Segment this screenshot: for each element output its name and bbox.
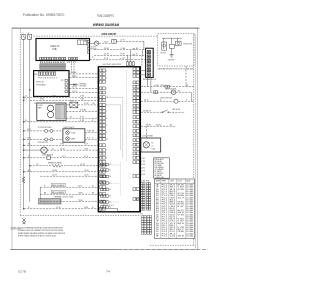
svg-text:MOTOR: MOTOR — [161, 52, 167, 54]
wire vertical from U1 P8 pin 1 — [71, 61, 73, 74]
svg-text:P3-2: P3-2 — [162, 208, 168, 210]
svg-text:DOOR SWITCHES: DOOR SWITCHES — [38, 127, 52, 129]
light circuit ground symbol — [171, 49, 173, 55]
svg-text:2: 2 — [156, 214, 160, 216]
convection fan motor M2 — [48, 112, 54, 118]
svg-text:WIRE: WIRE — [161, 181, 165, 183]
svg-text:P11: P11 — [84, 41, 88, 43]
svg-text:10 W: 10 W — [60, 148, 65, 150]
wire vertical from U1 P8 pin 2 — [73, 61, 75, 78]
svg-text:DOOR AND OVEN DOOR IN STANDBY: DOOR AND OVEN DOOR IN STANDBY POSITION F… — [18, 229, 63, 232]
svg-text:1 2 3 4 5 6 7 8 9 10 11 12: 1 2 3 4 5 6 7 8 9 10 11 12 — [40, 62, 65, 64]
svg-text:GN BR: GN BR — [177, 195, 184, 197]
svg-text:P1: P1 — [61, 80, 64, 82]
outer frame border — [12, 28, 198, 250]
door latch switch row — [141, 111, 162, 113]
EOC bottom interior relay clusters — [100, 163, 102, 166]
svg-text:EVERY TRACE DETAILS OF ATTD CO: EVERY TRACE DETAILS OF ATTD CONTROLLED — [18, 235, 56, 238]
svg-text:4 BU: 4 BU — [141, 167, 145, 169]
svg-text:BK-11: BK-11 — [170, 208, 176, 210]
svg-text:BK-10: BK-10 — [170, 185, 176, 187]
svg-text:P7-1: P7-1 — [162, 214, 168, 216]
svg-text:P1-1: P1-1 — [162, 216, 168, 218]
svg-text:12 OR: 12 OR — [80, 164, 86, 166]
svg-text:OR BR: OR BR — [177, 231, 184, 233]
wire lamp box to EOC upper — [85, 131, 98, 133]
svg-text:4: 4 — [156, 235, 160, 237]
svg-text:BU-7: BU-7 — [170, 229, 176, 231]
svg-text:16 BR: 16 BR — [78, 193, 83, 195]
svg-text:P1-1: P1-1 — [162, 235, 168, 237]
svg-text:CONV MOTOR: CONV MOTOR — [37, 142, 48, 144]
light circuit vertical 1 — [163, 38, 165, 49]
board U1 bottom pin header P2 — [40, 57, 42, 59]
svg-text:GN BU: GN BU — [177, 202, 184, 204]
door switch S2 row — [24, 138, 45, 140]
wire L1 BK feeder to EOC P1-2 — [30, 99, 98, 101]
svg-text:BU GN: BU GN — [177, 204, 184, 206]
wire 19 W board U2 to EOC P9-2 — [69, 77, 98, 79]
svg-text:GY-11: GY-11 — [170, 231, 176, 233]
wire bake element row — [51, 183, 65, 186]
svg-text:K7: K7 — [109, 196, 111, 198]
svg-text:Y YELLOW: Y YELLOW — [155, 177, 164, 179]
svg-text:12: 12 — [156, 231, 159, 233]
oven light circuit dashed box — [158, 33, 194, 66]
svg-text:BROIL ELEMENT: BROIL ELEMENT — [52, 192, 65, 194]
svg-text:OVEN LIGHTS: OVEN LIGHTS — [63, 127, 74, 129]
svg-text:1 BK: 1 BK — [141, 158, 145, 160]
wire chart table — [155, 179, 195, 239]
svg-text:GN-1: GN-1 — [170, 195, 176, 197]
svg-text:BK-3: BK-3 — [170, 191, 176, 193]
svg-text:P12 1 2 3 4: P12 1 2 3 4 — [103, 205, 114, 207]
wire 18 BK board U2 to EOC P9-1 — [69, 73, 98, 75]
wire MDL row — [24, 171, 99, 173]
svg-text:P3-2: P3-2 — [162, 231, 168, 233]
light circuit vertical 3 — [176, 38, 178, 41]
svg-text:13: 13 — [156, 210, 159, 212]
svg-text:W-5: W-5 — [170, 214, 176, 216]
svg-text:V W: V W — [177, 214, 184, 216]
EOC internal partition dashed — [125, 70, 127, 161]
svg-text:K4: K4 — [109, 176, 111, 178]
chassis ground symbol of board U2 — [69, 84, 73, 86]
wire verticals terminal block to EOC top — [141, 55, 143, 66]
svg-text:13 BU: 13 BU — [52, 170, 58, 172]
svg-text:P7-1: P7-1 — [162, 191, 168, 193]
svg-text:R-4: R-4 — [170, 233, 176, 235]
fan motor assembly box — [37, 103, 66, 120]
svg-text:Publication No. 5995573570: Publication No. 5995573570 — [23, 13, 65, 17]
vertical link bake-broil — [39, 187, 41, 201]
board U1 ESEC 30 UIB (user interface board) — [36, 39, 90, 61]
svg-text:CONN: CONN — [169, 181, 173, 183]
light circuit vertical 2 — [171, 38, 173, 44]
wire 20 GY board U2 to EOC — [69, 87, 98, 89]
wire row into terminal block 1 — [94, 49, 146, 51]
svg-text:OVEN LIGHT: OVEN LIGHT — [183, 44, 193, 46]
svg-text:P6-2: P6-2 — [162, 202, 168, 204]
convection motor M3 — [41, 147, 47, 153]
EOC bottom interior connector box — [102, 208, 118, 211]
svg-text:P6: P6 — [34, 103, 36, 105]
svg-text:T2 W: T2 W — [84, 170, 89, 172]
svg-text:P4-2: P4-2 — [162, 210, 168, 212]
svg-text:2: 2 — [156, 206, 160, 208]
svg-text:L1: L1 — [25, 96, 27, 98]
svg-text:P8 1 2 3: P8 1 2 3 — [67, 62, 76, 64]
svg-text:OVEN SENSOR: OVEN SENSOR — [42, 154, 54, 156]
svg-text:8: 8 — [156, 199, 160, 201]
wire broil element row — [51, 190, 65, 193]
motor winding hatch — [56, 104, 65, 119]
svg-text:CONN: CONN — [141, 180, 145, 182]
svg-text:3: 3 — [156, 225, 160, 227]
svg-text:LATCH SW: LATCH SW — [172, 108, 180, 111]
connector face view stack B — [146, 183, 148, 185]
svg-text:P6-1: P6-1 — [162, 225, 168, 227]
svg-text:CONV: CONV — [38, 105, 43, 107]
svg-text:6 W: 6 W — [80, 120, 85, 122]
board U2 ESEC 30 keyboard / touch panel — [34, 71, 69, 97]
svg-text:P1-2: P1-2 — [162, 195, 168, 197]
svg-text:74: 74 — [106, 269, 110, 273]
svg-text:BK-4: BK-4 — [170, 193, 176, 195]
wire L1 R feeder to EOC P1-1 — [24, 96, 99, 98]
svg-text:BK GN: BK GN — [177, 185, 184, 187]
svg-text:KEYBOARD: KEYBOARD — [36, 83, 46, 86]
svg-text:P1-1: P1-1 — [162, 187, 168, 189]
svg-text:OR-3: OR-3 — [170, 206, 176, 208]
fuse F1 box — [170, 44, 175, 48]
wire fan box to EOC row 1 — [66, 104, 70, 106]
svg-text:R-9: R-9 — [170, 189, 176, 191]
wire row into terminal block 2 — [94, 54, 146, 56]
oven sensor row with thermostat — [24, 157, 47, 159]
svg-text:K9: K9 — [109, 189, 111, 191]
svg-text:P1-3: P1-3 — [162, 233, 168, 235]
EOC left edge pin columns — [99, 69, 102, 72]
svg-text:10: 10 — [156, 193, 159, 195]
board U1 interior connector P8 top right — [78, 40, 87, 45]
svg-text:9: 9 — [156, 191, 160, 193]
svg-text:POWER BOARD CAN HAVE JUMPERS O: POWER BOARD CAN HAVE JUMPERS OR CAPACITO… — [18, 232, 65, 235]
svg-text:N W: N W — [121, 54, 125, 56]
svg-text:OVEN LIGHT SW: OVEN LIGHT SW — [160, 97, 173, 99]
cooling fan box — [145, 126, 147, 138]
svg-text:P5-2: P5-2 — [162, 221, 168, 223]
svg-text:V-1: V-1 — [170, 223, 176, 225]
svg-text:12: 12 — [156, 212, 159, 214]
svg-text:UIB: UIB — [52, 48, 57, 51]
svg-text:P1-2: P1-2 — [162, 223, 168, 225]
wire neutral return row — [24, 208, 99, 210]
oven circuit enclosure dashed bottom border — [150, 244, 194, 246]
svg-text:5: 5 — [156, 229, 160, 231]
wire connector to terminal block elbow — [116, 40, 144, 42]
svg-text:P1-3: P1-3 — [162, 229, 168, 231]
svg-text:OR-13: OR-13 — [170, 197, 176, 199]
vertical link right — [191, 92, 193, 101]
board U2 right edge pin header P1 — [65, 79, 67, 81]
latch motor M4 — [171, 90, 176, 95]
connector face view stack A — [141, 183, 143, 185]
svg-text:30 W: 30 W — [27, 138, 32, 140]
console enclosure dashed bottom border — [20, 215, 140, 217]
svg-text:10: 10 — [106, 139, 108, 141]
connector face view stack C — [142, 216, 144, 218]
svg-text:P4 1 2 3 4 5 6 7: P4 1 2 3 4 5 6 7 — [38, 78, 57, 80]
vertical feed to EOC top pins 2 — [127, 55, 129, 61]
vertical feed to EOC top pins 1 — [130, 50, 132, 62]
svg-text:2: 2 — [156, 216, 160, 218]
svg-text:BR-2: BR-2 — [170, 202, 176, 204]
wires EOC right pins to terminal block — [140, 70, 146, 72]
wire fan box to EOC row 3 — [66, 117, 98, 119]
wire fan box to EOC row 2 — [66, 110, 98, 112]
svg-text:T5 W: T5 W — [84, 148, 89, 150]
svg-text:11: 11 — [156, 197, 159, 199]
svg-text:K1: K1 — [109, 202, 111, 204]
svg-text:P3-1: P3-1 — [162, 204, 168, 206]
svg-text:17 W: 17 W — [56, 207, 61, 209]
svg-text:12: 12 — [156, 195, 159, 197]
svg-text:5 GY: 5 GY — [141, 171, 145, 173]
svg-text:GROUND: GROUND — [79, 86, 87, 88]
svg-text:GY-1: GY-1 — [170, 221, 176, 223]
wire L1 vertical feeder — [23, 39, 25, 209]
EOC top edge pin header P10 — [126, 62, 128, 66]
terminal block TB1 — [146, 48, 154, 77]
svg-text:GROUND: GROUND — [168, 60, 175, 62]
svg-text:FGMC3065PFC: FGMC3065PFC — [97, 14, 115, 18]
svg-text:14: 14 — [156, 227, 159, 229]
EOC small indicator circle — [137, 198, 139, 200]
console enclosure dashed left border — [19, 29, 21, 216]
svg-text:N W: N W — [84, 207, 88, 209]
svg-text:P5-2: P5-2 — [162, 185, 168, 187]
svg-text:8: 8 — [156, 208, 160, 210]
wire row into terminal block 3 — [90, 59, 146, 61]
svg-text:8: 8 — [156, 204, 160, 206]
wire N W feeder to EOC — [24, 121, 99, 123]
svg-text:2: 2 — [156, 233, 160, 235]
svg-text:4: 4 — [156, 185, 160, 187]
svg-text:ESEC 30: ESEC 30 — [36, 82, 44, 84]
wire door switch to connector — [99, 42, 112, 44]
svg-text:11: 11 — [106, 97, 108, 99]
svg-text:WIRING DIAGRAM: WIRING DIAGRAM — [93, 23, 119, 27]
light circuit top wire — [162, 37, 182, 39]
svg-text:BK-14: BK-14 — [170, 219, 176, 221]
svg-text:L1: L1 — [24, 99, 26, 101]
board U2 top pin header P4 — [38, 72, 40, 75]
svg-text:E17B: E17B — [18, 269, 26, 273]
svg-text:19 W: 19 W — [72, 76, 77, 78]
heater element on L1 feeder (vertical zigzag) — [22, 177, 25, 184]
board U1 right edge pins P11 — [87, 40, 89, 42]
svg-text:24 W: 24 W — [104, 54, 109, 56]
inline connector on latch row — [154, 91, 158, 94]
svg-text:7: 7 — [156, 221, 160, 223]
svg-text:W-12: W-12 — [170, 216, 176, 218]
door lock motor box — [162, 42, 167, 50]
svg-text:K2: K2 — [109, 183, 111, 185]
svg-text:7: 7 — [156, 187, 160, 189]
wire 21 V board U2 to EOC — [69, 92, 98, 94]
svg-text:6 W: 6 W — [40, 120, 44, 122]
strain relief marks below console — [23, 218, 26, 224]
svg-text:P5-1: P5-1 — [162, 219, 168, 221]
ribbon cable connector between U1 and U2 — [40, 64, 66, 70]
svg-text:11: 11 — [156, 219, 159, 221]
svg-text:28 BU: 28 BU — [146, 124, 152, 126]
svg-text:P3-1: P3-1 — [162, 199, 168, 201]
svg-text:BU-4: BU-4 — [170, 199, 176, 201]
svg-text:P3-2: P3-2 — [162, 189, 168, 191]
svg-text:P4-2: P4-2 — [162, 197, 168, 199]
svg-text:GN-13: GN-13 — [170, 210, 176, 212]
wire color legend box — [153, 158, 169, 178]
svg-text:BR-7: BR-7 — [170, 225, 176, 227]
thermal cutout hatched element — [38, 199, 61, 204]
svg-text:BR-1: BR-1 — [170, 187, 176, 189]
oven circuit enclosure dashed right border — [193, 34, 195, 245]
inline connector on lamp feed row — [165, 85, 169, 88]
wire N vertical feeder — [29, 39, 31, 202]
svg-text:P2: P2 — [141, 213, 144, 215]
svg-text:OVEN: OVEN — [71, 132, 75, 134]
EOC right edge pin columns — [133, 67, 136, 70]
wire lamp box to EOC lower — [85, 138, 98, 140]
svg-text:COLOR: COLOR — [177, 181, 182, 183]
wire lower console row — [40, 175, 98, 177]
svg-text:P3-1: P3-1 — [162, 212, 168, 214]
svg-text:ELECTRONIC OVEN CONTROL: ELECTRONIC OVEN CONTROL — [103, 64, 122, 66]
wires terminal block down to right rows — [146, 77, 148, 86]
convection fan motor M1 — [48, 105, 54, 111]
svg-text:12: 12 — [156, 202, 159, 204]
svg-text:V-14: V-14 — [170, 235, 176, 237]
oven lamp assembly box — [63, 129, 85, 142]
lamp socket box — [176, 41, 182, 45]
svg-text:P5-1: P5-1 — [162, 193, 168, 195]
junction marks on feeders — [23, 97, 24, 98]
svg-text:W-8: W-8 — [170, 204, 176, 206]
spare row — [141, 125, 176, 127]
svg-text:PIN: PIN — [146, 180, 149, 182]
svg-text:K2: K2 — [109, 170, 111, 172]
svg-text:W-3: W-3 — [170, 227, 176, 229]
svg-text:OVEN CIRCUIT: OVEN CIRCUIT — [101, 32, 116, 36]
wire right row L1 lamp feed — [141, 86, 194, 88]
oven lamp L2 — [66, 137, 70, 141]
vertical from light box to row — [185, 66, 187, 86]
cooling fan motor M5 — [143, 142, 149, 148]
svg-text:GY W: GY W — [177, 193, 184, 195]
EOC internal short traces — [109, 164, 120, 166]
oven circuit enclosure dashed top border — [34, 35, 158, 37]
svg-text:K7: K7 — [109, 164, 111, 166]
EOC internal routing trace 2 — [106, 105, 120, 150]
svg-text:GN-8: GN-8 — [170, 212, 176, 214]
svg-text:P4-2: P4-2 — [162, 206, 168, 208]
door switch S3 (top, by U1) — [90, 42, 95, 44]
oven lamp L1 — [66, 131, 70, 135]
svg-text:P4-1: P4-1 — [162, 227, 168, 229]
svg-text:5: 5 — [156, 189, 160, 191]
EOC internal routing trace 1 — [106, 97, 122, 158]
thermal fuse TCO — [70, 102, 78, 108]
svg-text:10: 10 — [156, 223, 159, 225]
inline connector pair — [112, 40, 117, 44]
